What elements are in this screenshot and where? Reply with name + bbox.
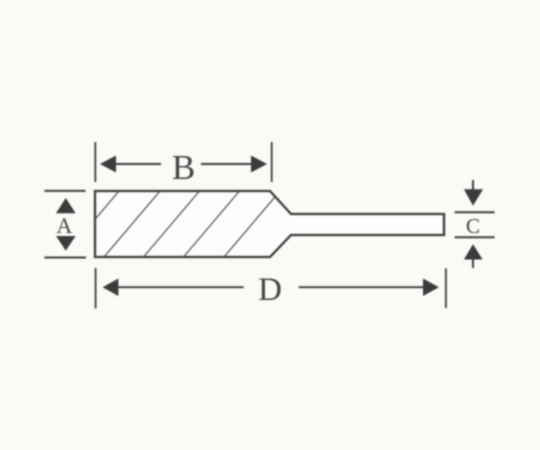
dimension B: left dim line segment	[112, 163, 161, 165]
svg-text:B: B	[172, 148, 195, 187]
dimension B: left arrow	[100, 156, 116, 173]
dimension A: bottom extension line	[44, 257, 86, 259]
svg-text:D: D	[258, 272, 282, 308]
dimension D: right arrow	[423, 279, 439, 297]
hatch line 4	[184, 191, 240, 257]
hatch line 2	[104, 191, 160, 257]
hatch line 5	[224, 191, 280, 257]
hatch line 3	[144, 191, 200, 257]
burr body outline (cylindrical head with taper and shaft)	[95, 191, 444, 257]
svg-text:C: C	[466, 214, 480, 238]
dimension A: up arrow	[56, 198, 76, 213]
dimension C: bottom line	[455, 236, 495, 238]
dimension C: upper arrow stem	[472, 180, 474, 190]
dimension B: right dim line segment	[201, 163, 255, 165]
dimension D: left dim line segment	[115, 286, 244, 288]
dimension C: lower (up-pointing) arrow	[464, 244, 483, 259]
dimension B: left extension line	[94, 142, 96, 182]
dimension B: right arrow	[251, 156, 267, 173]
dimension C: lower arrow stem	[472, 259, 474, 268]
dimension C: upper (down-pointing) arrow	[464, 189, 483, 206]
dimension A: top extension line	[44, 190, 85, 192]
dimension D: left extension line	[95, 268, 97, 308]
svg-text:A: A	[56, 213, 72, 238]
dimension A: down arrow	[56, 236, 76, 251]
hatch line 1	[63, 191, 119, 257]
dimension D: right extension line	[445, 268, 447, 308]
dimension B: right extension line	[271, 142, 273, 182]
dimension D: right dim line segment	[299, 286, 427, 288]
dimension C: top line	[455, 211, 495, 213]
hatch lines inside body	[63, 191, 280, 257]
dimension D: left arrow	[103, 279, 119, 297]
